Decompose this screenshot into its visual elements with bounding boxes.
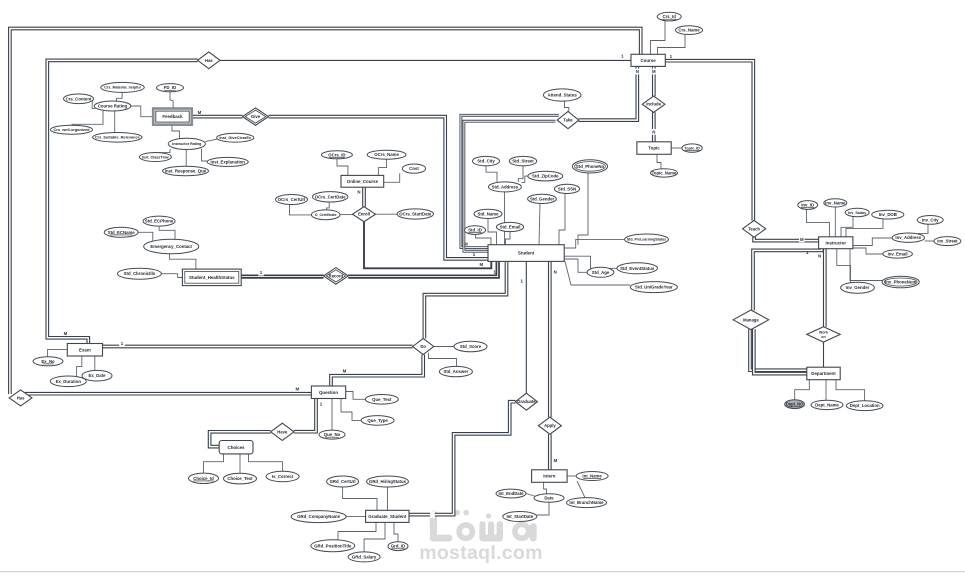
relationship Graduate (515, 393, 537, 410)
line Intern-Int_Name (567, 475, 576, 477)
attribute Ex_Duration (50, 376, 86, 387)
entity Online_Course (341, 175, 384, 187)
label cardinality M at 466,245.6 (464, 242, 468, 247)
line Choices-Choice_Text (239, 454, 241, 473)
svg-text:Inst_GiveClearEx: Inst_GiveClearEx (219, 135, 252, 140)
attribute Int_StartDate (503, 512, 537, 522)
svg-text:Intern: Intern (543, 474, 556, 479)
attribute Inv_Address (892, 233, 924, 242)
line Question-Que_Type (341, 399, 361, 421)
wire StudentHealthStatus-Record (241, 274, 323, 278)
line Choices-Choice_Id (204, 454, 224, 473)
line Enroll-OCrs_StartDate (376, 213, 398, 215)
line Std_ChronicIlls-SHS (161, 274, 182, 278)
label cardinality 1 at 670.8,57.9 (670, 54, 673, 59)
wire Student-Graduate (525, 261, 527, 393)
attribute Inv_Email (883, 250, 913, 258)
line Department-Dept_NO (795, 380, 810, 400)
line Std_Street-Std_Address (518, 166, 523, 182)
line Question-Que_No (331, 399, 333, 431)
svg-text:OCrs_CertDate: OCrs_CertDate (315, 194, 346, 199)
svg-text:Que_Type: Que_Type (367, 418, 388, 423)
svg-text:M: M (343, 368, 347, 373)
svg-text:Online_Course: Online_Course (347, 179, 379, 184)
attribute GRd_CertUrl (327, 476, 359, 487)
attribute Std_Answer (439, 366, 472, 376)
attribute Std_Gender (528, 194, 557, 203)
svg-text:Ex_Duration: Ex_Duration (56, 379, 82, 384)
svg-text:Std_ECName: Std_ECName (108, 230, 136, 235)
attribute Std_ZipCode (528, 171, 563, 181)
line Std_ECPhone-EmergencyContact (159, 226, 175, 239)
svg-text:OCrs_Name: OCrs_Name (374, 152, 399, 157)
svg-text:Inv_City: Inv_City (922, 217, 939, 222)
svg-text:Std_Score: Std_Score (460, 344, 482, 349)
svg-text:Std_ECPhone: Std_ECPhone (145, 219, 174, 224)
attribute Int_BranchName (567, 498, 607, 508)
entity Feedback (153, 109, 192, 125)
svg-text:Inst_ClassTime: Inst_ClassTime (142, 155, 169, 159)
attribute OCrs_CertUrl (276, 195, 308, 205)
svg-text:OCrs_StartDate: OCrs_StartDate (399, 212, 432, 217)
attribute Inv_DOB (872, 210, 904, 219)
entity Topic (637, 142, 671, 155)
attribute Date (534, 494, 564, 502)
svg-text:Que_Text: Que_Text (372, 397, 392, 402)
line InstructorRating-Inst_Response_Que (185, 150, 187, 167)
attribute Std_PreLearningStatus (625, 234, 669, 245)
svg-text:Std_City: Std_City (477, 159, 495, 164)
relationship Give (243, 108, 269, 125)
svg-text:N: N (554, 269, 557, 274)
svg-text:Choice_Text: Choice_Text (227, 476, 253, 481)
svg-text:M: M (198, 110, 202, 115)
line Std_ZipCode-Std_Address (521, 176, 527, 183)
svg-text:Int_StartDate: Int_StartDate (506, 514, 533, 519)
svg-text:Std_ChronicIlls: Std_ChronicIlls (124, 271, 156, 276)
line Std_Address-Student (504, 192, 506, 245)
label cardinality M at 344.5,372.4 (343, 368, 347, 373)
attribute Std_Email (496, 222, 523, 231)
line Crs_Id-Course (651, 21, 666, 55)
entity Student (488, 245, 564, 262)
entity Course (631, 54, 665, 66)
wire Give-Student (269, 117, 489, 259)
attribute Std_City (473, 156, 500, 165)
svg-text:Std_Gender: Std_Gender (530, 196, 555, 201)
wire Work_on-Department (823, 342, 825, 367)
line GRd_HiringStatus-GS (387, 487, 389, 510)
svg-text:Inv_Street: Inv_Street (937, 239, 958, 244)
attribute Inst_Response_Que (163, 166, 209, 175)
wire Teach-Instructor (754, 237, 819, 241)
svg-text:Dept_Location: Dept_Location (850, 403, 880, 408)
svg-text:Grd_ID: Grd_ID (391, 544, 405, 549)
label cardinality 1 at 807.4,254.2 (806, 250, 809, 255)
entity Graduate_Student (366, 510, 409, 522)
line CourseRating-Crs_Suitable_Relevance (114, 111, 116, 133)
attribute Instructor Rating (168, 138, 205, 149)
svg-text:Manage: Manage (743, 317, 759, 322)
attribute Attend_Status (543, 89, 581, 101)
line OCrs_CertUrl-O_Certificate (290, 205, 312, 215)
wire Graduate-Graduate_Student (409, 402, 515, 515)
svg-text:Choices: Choices (228, 445, 246, 450)
wire Take-Student upper (461, 115, 559, 247)
svg-text:OCrs_ID: OCrs_ID (328, 152, 345, 157)
svg-text:Inv_Email: Inv_Email (888, 251, 908, 256)
svg-text:M: M (800, 237, 804, 242)
label cardinality M at 297.3,390.4 (295, 386, 299, 391)
wire Feedback-Give (192, 115, 243, 119)
svg-text:Dept_Name: Dept_Name (815, 402, 839, 407)
svg-text:Std_PreLearningStatus: Std_PreLearningStatus (627, 238, 666, 242)
attribute Std_Name (474, 209, 502, 218)
line Exam-Ex_Duration (77, 356, 82, 376)
line Std_PhoneNo-Student (578, 173, 588, 245)
svg-text:N: N (818, 254, 821, 259)
relationship Work on (807, 327, 840, 342)
svg-text:Crs_Name: Crs_Name (678, 28, 700, 33)
attribute FD_ID (157, 84, 184, 92)
label cardinality N at 821.2,257.5 (818, 254, 821, 259)
line Topic-Topic_Name (657, 154, 661, 168)
line Std_Name-Student (488, 219, 497, 245)
line Inv_Gender-Instructor (837, 249, 851, 283)
line Crs_Name-Course (658, 34, 686, 54)
attribute Inv_Salary (845, 208, 869, 216)
line InstructorRating-Inst_GiveClearEx (205, 139, 217, 141)
line Inv_Salary-Instructor (841, 217, 853, 237)
svg-text:Std_Address: Std_Address (492, 184, 519, 189)
svg-text:Teach: Teach (748, 226, 760, 231)
relationship Apply (538, 417, 561, 434)
attribute Que_Type (361, 416, 394, 426)
svg-text:Std_EventStatus: Std_EventStatus (620, 266, 655, 271)
attribute Inv_City (917, 216, 943, 225)
wire Has(top)-Course (220, 59, 631, 61)
svg-text:N: N (357, 189, 360, 194)
attribute Std_ID (464, 226, 485, 235)
svg-text:M: M (652, 69, 656, 74)
svg-text:on: on (821, 335, 825, 339)
relationship Take (557, 112, 579, 129)
line OCrs_Name-Online_Course (378, 159, 386, 175)
attribute Crs_Suitable_Relevance (93, 133, 142, 143)
svg-text:Topic_ID: Topic_ID (684, 146, 700, 150)
attribute Std_UniGradeYear (630, 282, 677, 293)
svg-text:GRd_Salary: GRd_Salary (352, 554, 377, 559)
wire Exam-Do (103, 345, 413, 349)
wire Record-Student (348, 261, 497, 276)
line Inv_Street-Inv_Address (925, 240, 934, 242)
wire Instructor-Manage (753, 249, 822, 311)
attribute Ex_Date (82, 370, 112, 381)
label cardinality 1 at 622.3,57.6 (621, 54, 624, 59)
attribute Topic_Name (651, 169, 678, 177)
svg-text:Enroll: Enroll (358, 212, 370, 217)
entity Exam (67, 344, 102, 357)
svg-text:Int_EndDate: Int_EndDate (498, 491, 524, 496)
attribute Int_EndDate (496, 489, 526, 498)
line Student-Std_Age (564, 259, 587, 272)
relationship Manage (733, 310, 769, 330)
svg-text:Inv_Salary: Inv_Salary (848, 211, 866, 215)
svg-text:M: M (64, 331, 68, 336)
attribute Ex_No (33, 357, 63, 366)
line CourseRating-Feedback (131, 106, 153, 117)
svg-text:Crs_well-organized: Crs_well-organized (53, 127, 90, 132)
svg-text:Instructor Rating: Instructor Rating (172, 142, 201, 146)
label cardinality M at 199.5,114.2 (198, 110, 202, 115)
line Int_EndDate-Date (526, 494, 535, 497)
svg-text:Inv_ID: Inv_ID (801, 203, 814, 208)
line Crs_Material_helpful-CourseRating (117, 92, 123, 101)
label cardinality N at 360.6,193.4 (357, 189, 360, 194)
entity Question (311, 386, 345, 399)
watermark mostaql logo (430, 510, 537, 542)
svg-text:Que_No: Que_No (324, 432, 341, 437)
label cardinality N at 553.6,273.3 (554, 269, 557, 274)
relationship Have (271, 423, 294, 440)
attribute OCrs_ID (321, 151, 352, 159)
attribute Topic_ID (682, 144, 702, 152)
line Std_ECName-EmergencyContact (138, 232, 153, 240)
svg-text:Have: Have (277, 429, 288, 434)
svg-text:Cost: Cost (409, 166, 419, 171)
svg-text:Ex_Date: Ex_Date (89, 373, 107, 378)
relationship Has (198, 52, 220, 69)
line Inv_ID-Instructor (807, 209, 830, 236)
attribute Std_PhoneNo (572, 160, 607, 173)
svg-text:Std_Street: Std_Street (512, 159, 534, 164)
attribute Crs_Id (657, 12, 681, 21)
attribute Std_SSN (554, 184, 579, 193)
svg-text:Date: Date (544, 496, 554, 501)
label cardinality 1 at 494.6,273.4 (493, 269, 496, 274)
svg-text:Inv_Address: Inv_Address (895, 235, 921, 240)
attribute Inv_Gender (841, 282, 875, 293)
relationship Enroll (353, 207, 376, 222)
attribute Course Rating (94, 101, 131, 111)
svg-text:GRd_HiringStatus: GRd_HiringStatus (369, 479, 407, 484)
attribute Emergency_Contact (144, 239, 199, 253)
svg-text:Topic_Name: Topic_Name (652, 170, 677, 175)
attribute O_Certificate (311, 210, 340, 220)
svg-text:Ex_No: Ex_No (41, 359, 55, 364)
attribute Inst_GiveClearEx (217, 133, 254, 142)
attribute OCrs_Name (367, 150, 406, 159)
attribute Choice_Id (189, 473, 219, 483)
relationship Do (413, 338, 434, 354)
line Choices-Is_Correct (249, 454, 283, 471)
line Department-Dept_Name (825, 380, 827, 401)
attribute Inst_ClassTime (139, 153, 171, 162)
attribute GRd_PositionTitle (311, 540, 355, 552)
svg-text:Course: Course (641, 58, 657, 63)
svg-text:GRd_CertUrl: GRd_CertUrl (330, 479, 356, 484)
svg-text:Exam: Exam (79, 347, 91, 352)
svg-text:Department: Department (811, 371, 836, 376)
attribute Dept_Name (811, 400, 843, 409)
wire Have-Choices (210, 432, 271, 447)
line Feedback-InstructorRating (172, 125, 180, 139)
line Inv_Address-Instructor (853, 238, 892, 246)
svg-text:O_Certificate: O_Certificate (315, 213, 337, 217)
line Inv_DOB-Instructor (846, 219, 883, 237)
bottom separator line (0, 571, 965, 573)
svg-text:Feedback: Feedback (162, 114, 183, 119)
svg-text:Int_Name: Int_Name (582, 474, 602, 479)
svg-text:OCrs_CertUrl: OCrs_CertUrl (278, 197, 305, 202)
line Exam-Ex_Date (94, 356, 96, 371)
attribute Inv_ID (798, 201, 818, 210)
svg-text:Inv_DOB: Inv_DOB (879, 212, 897, 217)
entity Instructor (819, 237, 853, 249)
line Std_ID-Student (476, 234, 492, 244)
svg-text:Crs_Material_helpful: Crs_Material_helpful (104, 86, 140, 90)
wire Take-Student lower (464, 121, 556, 251)
svg-text:M: M (295, 386, 299, 391)
entity Choices (219, 441, 253, 454)
wire Course-Include (652, 66, 656, 96)
attribute Std_Address (488, 182, 521, 192)
label cardinality M at 553.6,462 (554, 458, 558, 463)
attribute Que_No (319, 430, 345, 439)
line Do-Std_Answer (429, 353, 457, 367)
svg-text:Std_ID: Std_ID (468, 228, 482, 233)
svg-text:M: M (479, 262, 483, 267)
attribute Std_ChronicIlls (117, 268, 161, 279)
line Department-Dept_Location (836, 380, 865, 401)
line GS-GRd_Salary (364, 522, 385, 552)
attribute Int_Name (576, 472, 608, 481)
attribute Inv_Name (824, 199, 847, 207)
wire Include-Topic (652, 112, 656, 142)
svg-text:Std_ZipCode: Std_ZipCode (532, 174, 559, 179)
label cardinality M at 481.3,266.2 (479, 262, 483, 267)
line EmergencyContact-SHS (169, 254, 196, 269)
line Std_SSN-Student (559, 194, 565, 245)
label cardinality 1 at 523,282.5 (521, 279, 524, 284)
line Question-Que_Text (346, 392, 366, 400)
wire Manage-Department inner (754, 329, 807, 373)
wire Enroll-Student (364, 222, 491, 269)
svg-text:N: N (636, 69, 639, 74)
svg-text:Inst_Response_Que: Inst_Response_Que (165, 169, 207, 174)
svg-text:Inv_PhoneNum: Inv_PhoneNum (885, 280, 916, 285)
line Std_Email-Student (506, 232, 511, 245)
label cardinality N at 653.8,133.4 (651, 129, 657, 135)
attribute Inv_Street (934, 237, 961, 246)
wire Exam-Has(top) via left frame (47, 60, 197, 343)
attribute GRd_Salary (348, 552, 380, 562)
line Inv_PhoneNum-Instructor (850, 249, 882, 281)
line GS-Grd_ID (394, 522, 398, 541)
line GRd_CertUrl-GS (343, 487, 377, 510)
line Std_Gender-Student (539, 204, 540, 245)
svg-text:Is_Correct: Is_Correct (272, 474, 294, 479)
svg-text:Choice_Id: Choice_Id (193, 476, 214, 481)
relationship Teach (743, 220, 766, 237)
svg-text:Take: Take (563, 118, 573, 123)
svg-text:Crs_Content: Crs_Content (66, 96, 92, 101)
attribute OCrs_CertDate (313, 192, 348, 202)
entity Student_HealthStatus (182, 269, 241, 286)
attribute Que_Text (365, 395, 398, 405)
line Student-Std_EventStatus (564, 256, 617, 268)
line Student-Std_UniGradeYear (565, 261, 630, 285)
line Do-Std_Score (434, 346, 454, 348)
svg-text:Crs_Suitable_Relevance: Crs_Suitable_Relevance (95, 135, 141, 140)
line Inv_Email-Instructor (853, 248, 883, 254)
svg-text:GRd_CompanyName: GRd_CompanyName (297, 514, 340, 519)
svg-text:Emergency_Contact: Emergency_Contact (150, 244, 192, 249)
wire Course-Teach (665, 61, 753, 221)
label cardinality 1 at 261,274.2 (258, 270, 264, 276)
line Std_City-Std_Address (486, 166, 497, 182)
svg-text:Graduate: Graduate (517, 399, 536, 404)
svg-text:Instructor: Instructor (826, 240, 847, 245)
attribute Choice_Text (224, 473, 257, 484)
svg-text:Std_Answer: Std_Answer (443, 369, 468, 374)
svg-text:Dept_NO: Dept_NO (786, 402, 803, 407)
svg-text:Std_UniGradeYear: Std_UniGradeYear (635, 285, 673, 290)
line Crs_Content-CourseRating (92, 101, 95, 109)
svg-text:Apply: Apply (544, 423, 556, 428)
svg-text:Std_SSN: Std_SSN (558, 186, 576, 191)
attribute Crs_well-organized (51, 125, 93, 134)
line O_Certificate-Enroll (340, 214, 353, 216)
svg-text:Give: Give (251, 114, 261, 119)
attribute Is_Correct (266, 471, 299, 481)
line Attend_Status-Take (565, 101, 569, 111)
wire Do-Question (331, 355, 423, 386)
wire Apply-Intern (548, 434, 552, 470)
wire frame Course-Has(bottom) via top/left border (10, 29, 641, 395)
line Inv_Name-Instructor (834, 207, 836, 237)
line InstructorRating-Inst_ClassTime (158, 149, 170, 153)
line Date-Int_StartDate (537, 502, 549, 515)
line Intern-Date (544, 482, 547, 494)
attribute Std_Score (454, 341, 487, 352)
line Topic-Topic_ID (671, 147, 682, 149)
svg-text:Student: Student (518, 251, 535, 256)
attribute Dept_NO (785, 400, 805, 409)
svg-text:Question: Question (319, 390, 338, 395)
attribute Crs_Content (64, 94, 94, 104)
svg-text:FD_ID: FD_ID (164, 85, 176, 90)
svg-text:GRd_PositionTitle: GRd_PositionTitle (314, 543, 352, 548)
line Cost-Online_Course (384, 173, 400, 182)
attribute OCrs_StartDate (397, 209, 433, 219)
line GS-GRd_PositionTitle (338, 522, 376, 539)
line Student-Std_PreLearningStatus (564, 239, 624, 248)
wire Student-Do (424, 261, 506, 338)
entity Department (807, 367, 840, 380)
svg-text:Has: Has (17, 395, 25, 400)
wire Take-Course (579, 66, 638, 120)
entity Intern (532, 470, 568, 483)
attribute Std_ECName (104, 227, 138, 237)
wire Student-Apply (548, 261, 552, 417)
attribute Grd_ID (388, 542, 408, 551)
line InstructorRating-Inst_Explanation (202, 149, 208, 161)
svg-text:Int_BranchName: Int_BranchName (569, 500, 604, 505)
label cardinality 1 at 122,344.9 (119, 341, 125, 347)
wire Has(bottom)-Question (25, 392, 311, 396)
svg-text:Topic: Topic (648, 146, 660, 151)
